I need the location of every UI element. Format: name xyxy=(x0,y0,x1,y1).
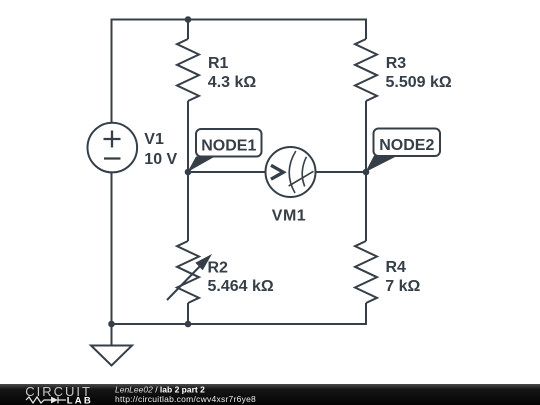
svg-text:10 V: 10 V xyxy=(144,151,177,168)
junction dot node1 xyxy=(185,169,192,176)
junction dot node2 xyxy=(363,169,370,176)
svg-text:LAB: LAB xyxy=(67,395,93,405)
label R2 value xyxy=(208,260,274,295)
svg-text:NODE2: NODE2 xyxy=(379,137,434,154)
wire R3 bottom lead to node2 xyxy=(365,101,367,172)
svg-text:R2: R2 xyxy=(208,260,229,277)
svg-text:NODE1: NODE1 xyxy=(201,138,256,155)
junction dot bottom left xyxy=(108,321,115,328)
wire R1 bottom lead to node1 xyxy=(187,101,189,172)
svg-text:7 kΩ: 7 kΩ xyxy=(385,278,420,295)
voltmeter VM1 xyxy=(266,147,316,197)
svg-text:R4: R4 xyxy=(386,259,407,276)
wire ground lead xyxy=(111,324,113,345)
label R3 value xyxy=(386,55,452,91)
resistor R3 xyxy=(355,39,377,101)
node NODE1 callout xyxy=(188,129,262,172)
junction dot bottom R2 xyxy=(185,321,192,328)
wire bottom horizontal with corner xyxy=(112,303,367,324)
svg-text:R1: R1 xyxy=(208,55,229,72)
voltage source V1 xyxy=(88,123,138,173)
svg-text:5.464 kΩ: 5.464 kΩ xyxy=(208,278,274,295)
node NODE2 callout xyxy=(366,129,441,173)
resistor R4 xyxy=(355,241,377,303)
wire top horizontal with corners xyxy=(112,20,367,124)
svg-text:VM1: VM1 xyxy=(272,208,306,225)
resistor R2 (variable) xyxy=(167,241,212,303)
footer bar xyxy=(0,384,540,405)
svg-text:5.509 kΩ: 5.509 kΩ xyxy=(386,74,452,91)
junction dot top (R1/top wire) xyxy=(185,16,192,23)
wire R4 top lead xyxy=(365,172,367,241)
label R1 value xyxy=(208,55,257,91)
wire R2 top lead xyxy=(187,172,189,241)
svg-text:http://circuitlab.com/cwv4xsr7: http://circuitlab.com/cwv4xsr7r6ye8 xyxy=(115,394,256,404)
wire R1 top lead xyxy=(187,20,189,40)
label R4 value xyxy=(385,259,420,295)
ground symbol xyxy=(91,346,132,366)
svg-text:V1: V1 xyxy=(144,131,164,148)
svg-text:R3: R3 xyxy=(386,55,407,72)
resistor R1 xyxy=(177,39,199,101)
svg-text:4.3 kΩ: 4.3 kΩ xyxy=(208,74,257,91)
wire R2 bottom lead xyxy=(187,303,189,324)
wire voltmeter to node2 xyxy=(316,171,367,173)
wire node1 to voltmeter xyxy=(188,171,266,173)
logo circuit glyph xyxy=(26,397,66,404)
wire left vertical lower xyxy=(111,172,113,324)
label V1 value xyxy=(144,131,177,168)
